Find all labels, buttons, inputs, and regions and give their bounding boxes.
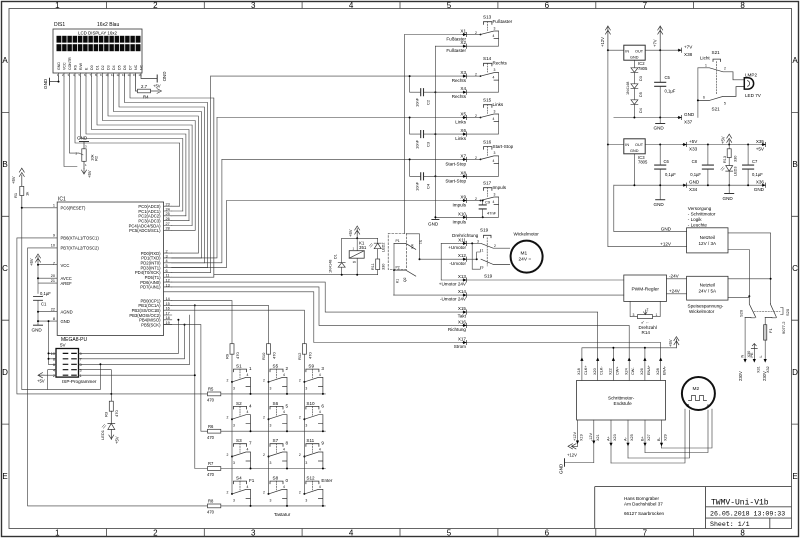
svg-text:LED 7V: LED 7V bbox=[745, 93, 762, 98]
svg-text:D5: D5 bbox=[639, 92, 643, 97]
svg-text:22: 22 bbox=[51, 308, 55, 312]
svg-text:+5V: +5V bbox=[37, 379, 45, 384]
svg-text:6: 6 bbox=[545, 529, 550, 538]
wire +7V rail bbox=[645, 49, 677, 51]
svg-text:S19: S19 bbox=[484, 274, 493, 279]
wire VCC/AVCC/AREF bbox=[38, 265, 57, 294]
wire X7 feed from IC PD7 bbox=[172, 159, 222, 262]
svg-text:S9: S9 bbox=[308, 364, 314, 369]
svg-text:230V: 230V bbox=[762, 371, 767, 381]
svg-text:R7: R7 bbox=[208, 461, 214, 466]
svg-text:X17: X17 bbox=[458, 337, 467, 342]
svg-text:0,1µF: 0,1µF bbox=[665, 172, 676, 177]
X15 Takt connector bbox=[458, 306, 467, 319]
X1 Fusstaster connector bbox=[405, 29, 481, 42]
svg-text:IN: IN bbox=[625, 143, 629, 147]
wire ISP pin1 up to IC PB1 bbox=[79, 374, 195, 376]
svg-text:2.7: 2.7 bbox=[141, 84, 148, 89]
svg-text:-24V: -24V bbox=[669, 273, 680, 278]
svg-text:X22: X22 bbox=[609, 368, 613, 375]
IC1 right pin stubs bbox=[164, 206, 172, 324]
svg-text:8: 8 bbox=[53, 317, 55, 321]
svg-text:+5V: +5V bbox=[668, 339, 673, 347]
svg-text:D4: D4 bbox=[639, 108, 643, 113]
svg-text:X20: X20 bbox=[593, 368, 597, 375]
wire LCD VCC down to +5V node bbox=[64, 76, 77, 166]
svg-text:R6: R6 bbox=[208, 424, 214, 429]
keyboard column verticals bbox=[232, 354, 304, 494]
svg-text:1: 1 bbox=[656, 313, 658, 317]
keyboard row resistors R5 R6 R7 R8 bbox=[208, 392, 221, 508]
svg-text:Versorgung: Versorgung bbox=[688, 206, 712, 211]
svg-text:470: 470 bbox=[207, 472, 215, 477]
wire IC pin9 down to keyboard row1 bbox=[17, 238, 208, 394]
pushbutton S2 key 4 bbox=[227, 401, 253, 432]
svg-text:+12V: +12V bbox=[600, 37, 605, 47]
svg-text:X24: X24 bbox=[625, 368, 629, 375]
svg-text:PB5(SCK): PB5(SCK) bbox=[141, 322, 161, 327]
svg-text:8: 8 bbox=[740, 529, 745, 538]
wire X5 feed from IC PD6 bbox=[172, 118, 217, 258]
svg-text:+5V: +5V bbox=[87, 170, 92, 178]
svg-text:470: 470 bbox=[114, 410, 119, 417]
capacitor C3 10nF bbox=[409, 117, 463, 150]
svg-text:GND: GND bbox=[661, 226, 672, 231]
wire X1 feed down to relay contact bbox=[404, 35, 406, 234]
svg-text:PB6(XTAL1/TOSC1): PB6(XTAL1/TOSC1) bbox=[61, 236, 100, 241]
svg-text:1: 1 bbox=[482, 248, 484, 252]
svg-text:Impuls: Impuls bbox=[452, 219, 466, 224]
pushbutton S16 Start-Stop bbox=[467, 139, 514, 176]
svg-text:M2: M2 bbox=[693, 386, 700, 392]
svg-text:NC: NC bbox=[134, 64, 138, 70]
svg-text:+5V: +5V bbox=[756, 147, 765, 152]
svg-text:C1: C1 bbox=[41, 302, 47, 307]
svg-text:14: 14 bbox=[128, 73, 132, 77]
svg-text:Speisespannung-: Speisespannung- bbox=[688, 304, 724, 309]
capacitor C4 10nF bbox=[409, 158, 463, 191]
ground below C5 bbox=[654, 118, 665, 131]
resistor R4 2.7 (LCD backlight) bbox=[136, 76, 162, 93]
pushbutton S13 Fusstaster bbox=[467, 15, 513, 47]
svg-text:B: B bbox=[687, 403, 690, 408]
resistor R13 330 with +5V arrow bbox=[721, 134, 738, 163]
svg-text:1N4148: 1N4148 bbox=[329, 260, 333, 273]
X16 Richtung connector bbox=[448, 319, 467, 332]
stepper output pins bottom bbox=[578, 420, 662, 463]
+7V arrow bbox=[658, 26, 663, 50]
svg-text:R3: R3 bbox=[104, 411, 109, 417]
svg-text:10: 10 bbox=[106, 73, 110, 77]
mains connector arrows X30 X31 X32 bbox=[744, 359, 767, 363]
svg-text:4: 4 bbox=[53, 368, 55, 372]
svg-text:GND: GND bbox=[630, 56, 639, 60]
svg-text:470: 470 bbox=[308, 352, 313, 359]
+5V arrow below LED1 (down) bbox=[109, 430, 114, 440]
svg-text:D0: D0 bbox=[90, 65, 94, 70]
svg-text:CW+: CW+ bbox=[615, 366, 619, 375]
X3 Rechts connector bbox=[211, 70, 481, 83]
GND at LCD pin 16 (rotated right) bbox=[141, 75, 157, 82]
svg-text:1k: 1k bbox=[25, 192, 30, 196]
svg-text:Strom: Strom bbox=[454, 344, 466, 349]
svg-text:F1: F1 bbox=[249, 478, 255, 483]
svg-text:PB7(XTAL2/TOSC2): PB7(XTAL2/TOSC2) bbox=[61, 246, 100, 251]
svg-text:7: 7 bbox=[80, 357, 82, 361]
mains switch S20 left pole bbox=[739, 296, 756, 318]
svg-text:-Umotor: -Umotor bbox=[449, 261, 466, 266]
X12 -Umotor connector bbox=[449, 253, 476, 266]
svg-text:470: 470 bbox=[235, 352, 240, 359]
svg-text:+5V: +5V bbox=[115, 436, 120, 444]
capacitor C8 0,1uF bbox=[690, 144, 713, 186]
pushbutton S17 Impuls bbox=[467, 181, 507, 218]
wire ISP pin9 up to IC PB4 bbox=[79, 320, 179, 354]
svg-text:Endstufe: Endstufe bbox=[614, 401, 633, 406]
svg-text:1: 1 bbox=[249, 366, 252, 371]
pushbutton S4 key F1 bbox=[227, 476, 255, 507]
wire Netzteil24V right side bbox=[728, 278, 771, 280]
svg-text:+5V: +5V bbox=[153, 84, 161, 89]
keyboard column resistors R9 R10 R12 bbox=[230, 344, 306, 355]
X8 Start-Stop connector bbox=[445, 170, 466, 183]
X16 Richtung line from IC PD7 bbox=[172, 287, 629, 358]
voltage regulator IC3 7805 bbox=[607, 139, 648, 185]
svg-text:R10: R10 bbox=[261, 352, 266, 360]
border column ticks bottom bbox=[106, 529, 693, 537]
svg-text:5: 5 bbox=[447, 1, 452, 10]
wire ISP pin5 up to IC PB3 bbox=[79, 315, 190, 364]
svg-text:B+: B+ bbox=[640, 435, 644, 441]
X10 Impuls connector bbox=[435, 211, 482, 224]
pushbutton S11 key 9 bbox=[299, 438, 325, 469]
svg-text:S15: S15 bbox=[483, 98, 492, 103]
svg-text:CLK-: CLK- bbox=[600, 366, 604, 375]
svg-text:GND: GND bbox=[754, 187, 765, 192]
svg-text:+5V: +5V bbox=[11, 176, 16, 184]
svg-text:LED3: LED3 bbox=[734, 167, 738, 177]
svg-text:X5: X5 bbox=[460, 112, 466, 117]
X4 Rechts connector bbox=[452, 86, 467, 99]
svg-text:ISP-Programmer: ISP-Programmer bbox=[62, 379, 97, 384]
LED LED1 bbox=[102, 411, 115, 429]
svg-text:5: 5 bbox=[447, 529, 452, 538]
title block frame bbox=[595, 487, 792, 529]
svg-text:C8: C8 bbox=[692, 159, 698, 164]
svg-text:X15: X15 bbox=[458, 306, 467, 311]
X36 connector right edge bbox=[754, 180, 766, 193]
svg-text:Netzteil: Netzteil bbox=[700, 283, 715, 288]
LED2 with resistor R11 bbox=[369, 238, 385, 274]
svg-text:NC: NC bbox=[139, 64, 143, 70]
svg-text:S5: S5 bbox=[273, 364, 279, 369]
title block address bbox=[624, 496, 665, 516]
svg-text:X25: X25 bbox=[630, 434, 634, 441]
X7 Start-Stop connector bbox=[222, 153, 481, 166]
ISP-Programmer header bbox=[51, 343, 97, 385]
wire relay contact common vertical to X14 bbox=[393, 243, 395, 295]
svg-text:8: 8 bbox=[740, 1, 745, 10]
svg-text:C: C bbox=[792, 264, 798, 273]
svg-text:X16: X16 bbox=[458, 319, 467, 324]
X35 connector right edge bbox=[756, 139, 766, 152]
svg-text:- Schrittmotor: - Schrittmotor bbox=[688, 212, 716, 217]
svg-text:-Umotor 24V: -Umotor 24V bbox=[440, 297, 467, 302]
border row ticks right bbox=[792, 112, 799, 424]
svg-text:GND: GND bbox=[684, 112, 695, 117]
svg-text:3: 3 bbox=[251, 529, 256, 538]
svg-text:Wickelmotor: Wickelmotor bbox=[514, 232, 540, 237]
svg-text:X37: X37 bbox=[684, 120, 693, 125]
capacitor C2 10nF bbox=[409, 75, 463, 107]
svg-text:9: 9 bbox=[53, 234, 55, 238]
svg-text:47nF: 47nF bbox=[487, 211, 497, 216]
X17 Strom line bbox=[164, 292, 661, 358]
GND rail of IC3 bbox=[614, 184, 762, 186]
svg-text:R12: R12 bbox=[297, 352, 302, 360]
svg-text:Hans Borngräber: Hans Borngräber bbox=[624, 496, 659, 501]
svg-text:X2: X2 bbox=[460, 40, 466, 45]
svg-text:C7: C7 bbox=[752, 159, 758, 164]
svg-text:Start-Stop: Start-Stop bbox=[445, 178, 466, 183]
svg-text:4: 4 bbox=[349, 529, 354, 538]
svg-text:K1: K1 bbox=[396, 279, 400, 283]
svg-text:R5: R5 bbox=[208, 387, 214, 392]
svg-text:GND: GND bbox=[654, 126, 665, 131]
svg-text:2: 2 bbox=[153, 529, 158, 538]
ground at X21 bbox=[559, 459, 594, 474]
pushbutton S6 key 5 bbox=[263, 401, 289, 432]
svg-text:S1: S1 bbox=[236, 364, 242, 369]
svg-text:16x2 Blau: 16x2 Blau bbox=[97, 22, 119, 28]
svg-text:C: C bbox=[2, 264, 8, 273]
wire M2 leads bbox=[611, 409, 712, 463]
svg-text:1: 1 bbox=[55, 1, 60, 10]
relay K1 top rail bbox=[342, 237, 378, 239]
svg-text:AGND: AGND bbox=[61, 310, 73, 315]
ground below C1 bbox=[34, 324, 43, 326]
svg-text:3: 3 bbox=[633, 313, 635, 317]
svg-text:LCD DISPLAY 16x2: LCD DISPLAY 16x2 bbox=[78, 31, 117, 36]
svg-text:Enter: Enter bbox=[321, 478, 332, 483]
border row ticks left bbox=[2, 112, 10, 424]
svg-text:VCC: VCC bbox=[62, 62, 66, 70]
LCD pin name labels (rotated) bbox=[57, 57, 144, 70]
border column numbers bottom bbox=[55, 529, 745, 538]
svg-text:Impuls: Impuls bbox=[493, 185, 507, 190]
svg-text:15: 15 bbox=[133, 73, 137, 77]
capacitor C9 47nF bbox=[479, 200, 496, 219]
+5V arrow stepper bus bbox=[668, 337, 679, 348]
svg-text:X35: X35 bbox=[756, 139, 765, 144]
svg-text:D: D bbox=[792, 368, 798, 377]
pushbutton S12 key Enter bbox=[299, 476, 333, 507]
GND bus of X column bbox=[428, 46, 439, 226]
svg-text:Netzteil: Netzteil bbox=[700, 235, 715, 240]
svg-text:1: 1 bbox=[55, 529, 60, 538]
svg-text:R11: R11 bbox=[371, 263, 375, 270]
svg-text:E: E bbox=[792, 472, 797, 481]
+12V arrow top right bbox=[605, 26, 610, 50]
svg-text:X21: X21 bbox=[596, 434, 600, 441]
svg-text:R4: R4 bbox=[143, 95, 149, 100]
svg-text:↙ ←: ↙ ← bbox=[641, 320, 649, 325]
svg-text:P2: P2 bbox=[396, 266, 400, 270]
svg-text:A: A bbox=[792, 56, 798, 65]
mains switch S20 right pole bbox=[765, 304, 790, 335]
svg-text:C2: C2 bbox=[426, 99, 431, 105]
diode D4 bbox=[631, 89, 643, 118]
svg-text:S17: S17 bbox=[483, 181, 492, 186]
svg-text:E: E bbox=[2, 472, 7, 481]
svg-text:10: 10 bbox=[51, 244, 55, 248]
svg-text:S1: S1 bbox=[419, 240, 423, 244]
svg-text:D5: D5 bbox=[117, 65, 121, 70]
svg-text:GND: GND bbox=[559, 463, 564, 474]
svg-text:GND: GND bbox=[32, 328, 43, 333]
svg-text:S4: S4 bbox=[236, 476, 242, 481]
border row letters right bbox=[792, 56, 798, 481]
relay contact K1 lower bbox=[394, 266, 416, 283]
wire ISP pin7 up to IC PB5 bbox=[79, 325, 185, 359]
GND above R2 bbox=[80, 141, 89, 143]
lamp switch S21 lower pole bbox=[698, 87, 744, 112]
svg-text:Links: Links bbox=[455, 120, 466, 125]
svg-text:R14: R14 bbox=[642, 330, 651, 335]
diode D1 1N4148 bbox=[329, 238, 346, 274]
svg-text:CLK+: CLK+ bbox=[584, 365, 588, 375]
IC1 right pin names bbox=[129, 204, 161, 327]
X2 Fusstaster connector bbox=[435, 40, 466, 53]
border column ticks top bbox=[106, 2, 693, 9]
svg-text:+7V: +7V bbox=[684, 45, 693, 50]
IC1 left pin numbers bbox=[51, 204, 55, 321]
svg-text:Schrittmotor-: Schrittmotor- bbox=[608, 396, 635, 401]
svg-text:Richtung: Richtung bbox=[448, 327, 467, 332]
svg-text:B: B bbox=[792, 160, 797, 169]
svg-text:Start-Stop: Start-Stop bbox=[445, 161, 466, 166]
LCD pin stubs and numbers bbox=[59, 73, 142, 76]
wire +5V bus to stepper plus pins bbox=[582, 348, 677, 358]
svg-text:D6: D6 bbox=[123, 65, 127, 70]
svg-text:M1: M1 bbox=[521, 251, 528, 257]
svg-text:D7: D7 bbox=[128, 65, 132, 70]
svg-text:X3: X3 bbox=[460, 70, 466, 75]
svg-text:2: 2 bbox=[153, 1, 158, 10]
svg-text:PC6(RESET): PC6(RESET) bbox=[61, 206, 87, 211]
svg-text:10nF: 10nF bbox=[415, 139, 420, 149]
wire X11 to X13 bbox=[440, 243, 442, 280]
svg-text:X1: X1 bbox=[460, 29, 466, 34]
svg-text:Takt: Takt bbox=[458, 314, 467, 319]
svg-text:R8: R8 bbox=[208, 499, 214, 504]
svg-text:GND: GND bbox=[428, 222, 439, 227]
switch S19 Drehrichtung (double pole) bbox=[452, 228, 510, 279]
motor M1 Wickelmotor bbox=[511, 232, 543, 273]
fuse F1 bbox=[764, 317, 773, 359]
svg-text:+24V: +24V bbox=[669, 288, 681, 293]
svg-text:Sheet: 1/1: Sheet: 1/1 bbox=[710, 521, 750, 528]
svg-text:24V / 5A: 24V / 5A bbox=[698, 289, 717, 294]
relay contact K1 upper bbox=[394, 239, 423, 249]
wire ISP pin5 branch down around to left bbox=[22, 364, 101, 389]
+5V arrow at IC1 VCC bbox=[36, 254, 41, 265]
wire PC pin stubs to bundle verticals bbox=[172, 206, 211, 272]
svg-text:2: 2 bbox=[53, 374, 55, 378]
svg-text:TWMV-Uni-V1b: TWMV-Uni-V1b bbox=[711, 499, 769, 508]
motor M2 stepper bbox=[682, 377, 715, 410]
svg-text:AREF: AREF bbox=[61, 281, 73, 286]
wire bundle LCD data pins to IC1 bbox=[75, 76, 214, 277]
IC1 right pin numbers bbox=[166, 203, 170, 325]
svg-text:R1: R1 bbox=[13, 192, 18, 198]
svg-text:X23: X23 bbox=[613, 434, 617, 441]
X14 -Umotor 24V connector bbox=[394, 289, 624, 302]
ground below C6 bbox=[654, 185, 665, 207]
IC1 left pin names bbox=[61, 206, 100, 325]
svg-text:470: 470 bbox=[207, 510, 215, 515]
svg-text:C9: C9 bbox=[485, 200, 491, 205]
svg-text:11: 11 bbox=[111, 73, 114, 77]
svg-text:Am Dachshübel 37: Am Dachshübel 37 bbox=[624, 502, 663, 507]
wire Netzteil12V to mains switch bbox=[728, 233, 771, 304]
svg-text:16: 16 bbox=[139, 73, 143, 77]
svg-text:10nF: 10nF bbox=[415, 97, 420, 107]
resistor R3 470 bbox=[109, 401, 113, 411]
svg-text:1: 1 bbox=[80, 374, 82, 378]
border column numbers top bbox=[55, 1, 745, 10]
svg-text:+5V: +5V bbox=[721, 136, 726, 144]
svg-text:Q2: Q2 bbox=[403, 277, 407, 282]
svg-text:GND: GND bbox=[630, 149, 639, 153]
wire ISP pin3 down to R3 bbox=[79, 370, 112, 402]
diode D5 bbox=[631, 73, 643, 97]
svg-text:+5V: +5V bbox=[348, 229, 353, 237]
svg-text:10nF: 10nF bbox=[415, 181, 420, 191]
svg-text:X29: X29 bbox=[664, 434, 668, 441]
lamp switch S21 upper pole bbox=[698, 50, 744, 94]
svg-text:+5V: +5V bbox=[29, 258, 34, 266]
svg-text:Fußtaster: Fußtaster bbox=[493, 19, 513, 24]
svg-text:7805: 7805 bbox=[638, 160, 648, 165]
wire ISP ground pins bbox=[41, 321, 56, 389]
svg-text:S6: S6 bbox=[273, 401, 279, 406]
svg-text:L: L bbox=[759, 355, 763, 357]
svg-text:X19: X19 bbox=[580, 434, 584, 441]
svg-text:21: 21 bbox=[51, 279, 55, 283]
svg-text:R9: R9 bbox=[225, 353, 230, 359]
svg-text:RS: RS bbox=[73, 64, 77, 70]
svg-text:K4: K4 bbox=[411, 244, 415, 248]
svg-text:CONTR: CONTR bbox=[68, 57, 72, 70]
svg-text:+5V: +5V bbox=[689, 139, 698, 144]
svg-text:R13: R13 bbox=[723, 156, 727, 163]
mains N line down bbox=[744, 317, 746, 359]
svg-text:3: 3 bbox=[80, 368, 82, 372]
wire relay NC contact to X12 bbox=[406, 234, 419, 259]
relay contact dashed box bbox=[388, 234, 406, 270]
Schrittmotor-Endstufe box bbox=[577, 380, 666, 420]
wire GND to Netzteil12V bbox=[614, 185, 687, 231]
LED3 bbox=[721, 158, 738, 186]
X15 Takt line from IC PD6 bbox=[172, 282, 598, 357]
svg-text:5: 5 bbox=[286, 403, 289, 408]
relay bottom rail bbox=[342, 274, 378, 276]
svg-text:24V =: 24V = bbox=[519, 257, 532, 263]
svg-text:S10: S10 bbox=[306, 401, 315, 406]
svg-text:S21: S21 bbox=[712, 50, 721, 55]
svg-text:GND: GND bbox=[689, 180, 700, 185]
